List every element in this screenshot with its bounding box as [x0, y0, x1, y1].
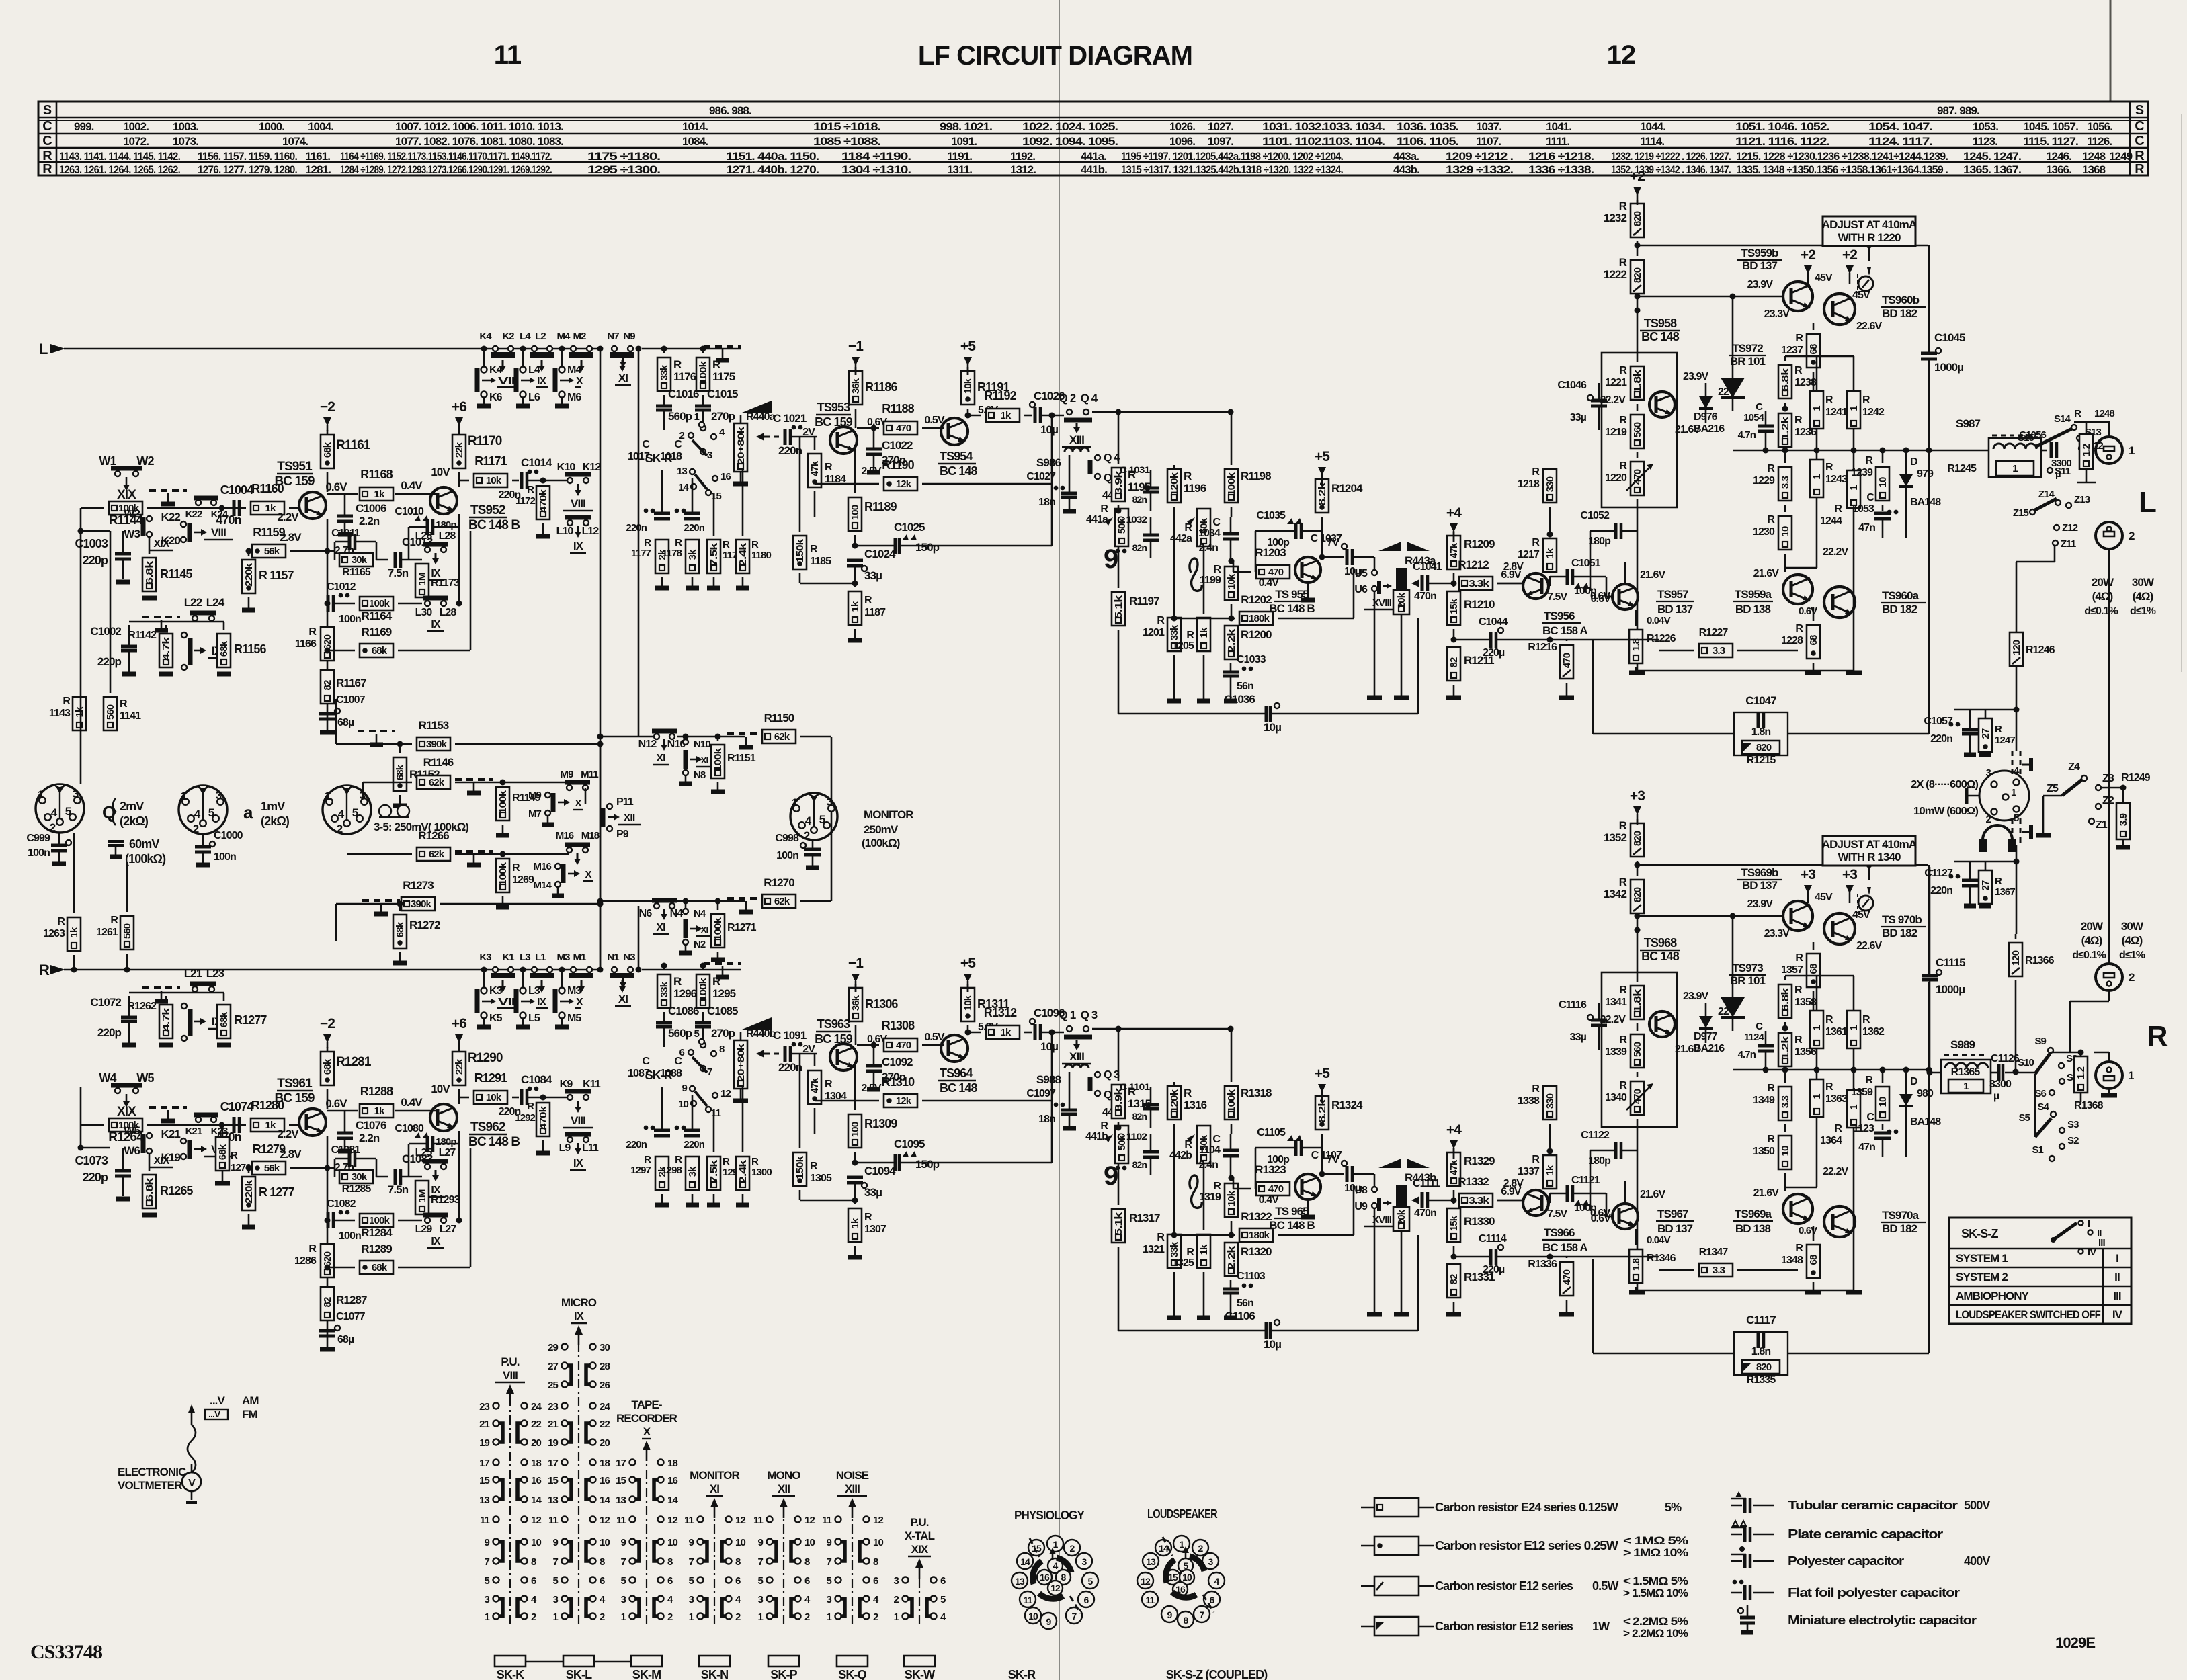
- svg-text:1114.: 1114.: [1640, 135, 1664, 148]
- svg-text:W6: W6: [124, 1144, 140, 1157]
- svg-text:1115. 1127.: 1115. 1127.: [2023, 135, 2078, 148]
- pot wedges R443a: [1378, 542, 1401, 551]
- svg-text:45V: 45V: [1815, 892, 1833, 903]
- svg-text:1201: 1201: [1143, 627, 1165, 638]
- svg-text:12: 12: [1141, 1576, 1151, 1587]
- svg-text:1335. 1348 ÷1350.1356 ÷1358.13: 1335. 1348 ÷1350.1356 ÷1358.1361÷1364.13…: [1736, 163, 1948, 176]
- svg-text:N8: N8: [694, 769, 706, 781]
- svg-text:1096.: 1096.: [1169, 135, 1195, 148]
- svg-text:6: 6: [804, 1575, 810, 1587]
- resistor R1356: [1778, 1033, 1792, 1066]
- svg-text:XI: XI: [701, 755, 708, 765]
- amp box TS958: [1602, 353, 1677, 507]
- svg-text:22.2V: 22.2V: [1823, 546, 1849, 558]
- svg-text:18: 18: [667, 1458, 677, 1469]
- svg-text:1087: 1087: [628, 1068, 650, 1079]
- svg-text:+3: +3: [1801, 867, 1815, 882]
- resistor R1195: [1112, 468, 1125, 501]
- svg-text:1164 ÷1169. 1152.1173.1153.114: 1164 ÷1169. 1152.1173.1153.1146.1170.117…: [340, 150, 552, 163]
- svg-text:1124. 1117.: 1124. 1117.: [1868, 135, 1932, 148]
- svg-text:1307: 1307: [864, 1224, 886, 1235]
- svg-text:1: 1: [2012, 463, 2018, 474]
- svg-text:TS953: TS953: [817, 401, 850, 414]
- svg-text:18: 18: [600, 1458, 610, 1469]
- svg-text:220n: 220n: [684, 1139, 704, 1150]
- svg-text:C1092: C1092: [882, 1056, 913, 1068]
- svg-text:330: 330: [1544, 476, 1556, 492]
- svg-text:BA216: BA216: [1694, 1043, 1725, 1054]
- svg-text:33k: 33k: [1169, 1241, 1180, 1257]
- svg-text:1124: 1124: [1744, 1032, 1764, 1043]
- svg-text:1357: 1357: [1781, 964, 1803, 976]
- svg-text:100n: 100n: [214, 851, 236, 863]
- svg-text:3: 3: [689, 1594, 694, 1605]
- svg-text:1191.: 1191.: [947, 150, 972, 163]
- capacitor C1072: [121, 1016, 137, 1019]
- svg-text:180p: 180p: [1588, 1155, 1611, 1167]
- svg-text:22.6V: 22.6V: [1856, 940, 1883, 952]
- svg-text:12: 12: [735, 1515, 745, 1526]
- svg-text:6.8k: 6.8k: [144, 560, 155, 585]
- svg-text:1091.: 1091.: [951, 135, 977, 148]
- svg-text:68k: 68k: [322, 442, 333, 458]
- svg-text:68µ: 68µ: [337, 717, 354, 728]
- svg-text:R1330: R1330: [1464, 1215, 1495, 1228]
- svg-text:12: 12: [667, 1515, 677, 1526]
- svg-text:10k: 10k: [962, 378, 974, 394]
- svg-text:1: 1: [621, 1611, 626, 1623]
- svg-text:3: 3: [73, 788, 79, 800]
- svg-text:68k: 68k: [372, 645, 388, 657]
- svg-text:68k: 68k: [322, 1058, 333, 1075]
- svg-text:R: R: [1619, 415, 1627, 426]
- svg-text:R: R: [751, 1156, 759, 1167]
- svg-text:R1170: R1170: [468, 434, 502, 448]
- svg-text:3: 3: [827, 796, 833, 808]
- capacitor C1006: [337, 515, 353, 518]
- resistor R1217: [1543, 538, 1557, 572]
- svg-text:R1190: R1190: [882, 458, 914, 472]
- resistor R1160: [251, 501, 284, 515]
- contacts L25 L27: [425, 1164, 430, 1169]
- DIN connector tape 3-5: [323, 786, 371, 834]
- legend capacitor tub: [1731, 1505, 1742, 1507]
- selector K3: [483, 972, 485, 989]
- svg-text:10: 10: [873, 1537, 883, 1548]
- svg-text:1056.: 1056.: [2087, 120, 2112, 133]
- svg-text:C1045: C1045: [1934, 331, 1965, 344]
- svg-text:Z5: Z5: [2047, 783, 2059, 794]
- svg-text:0.4V: 0.4V: [401, 1096, 423, 1109]
- svg-text:M1: M1: [573, 952, 586, 963]
- svg-text:C1103: C1103: [1237, 1271, 1266, 1282]
- svg-text:BD 137: BD 137: [1742, 879, 1778, 892]
- svg-text:2: 2: [667, 1611, 673, 1623]
- svg-text:1367: 1367: [1995, 886, 2015, 898]
- svg-text:0.6V: 0.6V: [325, 480, 347, 493]
- svg-text:L27: L27: [439, 1147, 456, 1159]
- capacitor C1044: [1489, 632, 1493, 648]
- svg-text:3: 3: [216, 789, 222, 802]
- svg-text:R: R: [1795, 623, 1803, 634]
- dashed ground: [727, 732, 765, 735]
- svg-text:1014.: 1014.: [682, 120, 708, 133]
- svg-text:1178: 1178: [662, 548, 682, 559]
- svg-text:1k: 1k: [850, 1218, 861, 1228]
- svg-text:45V: 45V: [1852, 290, 1870, 301]
- svg-text:220p: 220p: [97, 1026, 122, 1039]
- speaker switch S14 S13 S12 S11: [2071, 425, 2077, 430]
- svg-text:68: 68: [1808, 1255, 1819, 1265]
- svg-text:C1116: C1116: [1559, 999, 1587, 1011]
- svg-text:2mV: 2mV: [120, 800, 144, 813]
- svg-text:L5: L5: [528, 1013, 540, 1024]
- svg-text:R1192: R1192: [984, 389, 1016, 403]
- svg-text:IX: IX: [573, 540, 584, 552]
- svg-text:R: R: [1794, 984, 1803, 996]
- svg-text:1104: 1104: [1199, 1144, 1221, 1156]
- resistor R1276: [216, 1137, 229, 1171]
- svg-text:S3: S3: [2067, 1119, 2079, 1130]
- svg-text:C1115: C1115: [1936, 956, 1965, 969]
- svg-text:5: 5: [65, 805, 71, 818]
- resistor R1236: [1778, 413, 1792, 447]
- link tone to amp R: [1497, 1200, 1523, 1202]
- svg-text:1295 ÷1300.: 1295 ÷1300.: [587, 163, 660, 176]
- svg-text:Polyester capacitor: Polyester capacitor: [1788, 1554, 1904, 1568]
- resistor R1270: [762, 894, 796, 908]
- svg-text:R: R: [1532, 466, 1540, 478]
- svg-text:R: R: [42, 162, 52, 177]
- svg-text:1044.: 1044.: [1640, 120, 1665, 133]
- resistor R1291: [474, 1091, 507, 1104]
- svg-text:120k: 120k: [1169, 1089, 1180, 1113]
- treble clef: [1190, 1175, 1202, 1208]
- capacitor C1052: [1614, 523, 1618, 539]
- svg-text:C1012: C1012: [327, 581, 356, 593]
- svg-text:L9: L9: [559, 1142, 571, 1154]
- svg-text:N7: N7: [607, 331, 619, 342]
- svg-text:100: 100: [850, 1122, 861, 1137]
- svg-text:1085 ÷1088.: 1085 ÷1088.: [813, 135, 880, 148]
- transistor TS967: [1612, 1204, 1638, 1229]
- svg-text:2: 2: [193, 823, 199, 835]
- svg-text:R: R: [1619, 460, 1627, 472]
- svg-text:1217: 1217: [1518, 549, 1540, 560]
- svg-text:C: C: [674, 439, 682, 450]
- svg-text:220k: 220k: [243, 562, 255, 587]
- svg-text:S: S: [2135, 103, 2144, 118]
- svg-text:1097.: 1097.: [1208, 135, 1233, 148]
- svg-text:9: 9: [1104, 1161, 1118, 1191]
- resistor R1222: [1631, 260, 1644, 294]
- selector M16/M14: [555, 864, 561, 869]
- svg-text:1k: 1k: [1001, 1027, 1012, 1038]
- svg-text:1232. 1219 ÷1222 . 1226. 1227.: 1232. 1219 ÷1222 . 1226. 1227.: [1611, 150, 1731, 163]
- svg-text:R1146: R1146: [423, 756, 454, 769]
- svg-text:+6: +6: [452, 399, 466, 415]
- svg-text:R: R: [1619, 876, 1627, 888]
- svg-text:1368: 1368: [2082, 163, 2106, 176]
- svg-text:1004.: 1004.: [308, 120, 333, 133]
- svg-text:68µ: 68µ: [337, 1334, 354, 1345]
- svg-text:21.6V: 21.6V: [1753, 1187, 1780, 1199]
- svg-text:1205: 1205: [1172, 640, 1194, 652]
- capacitor C1094: [847, 1176, 863, 1179]
- svg-text:R: R: [675, 1154, 682, 1165]
- svg-text:R1145: R1145: [160, 567, 192, 581]
- svg-text:27: 27: [1980, 728, 1991, 739]
- svg-text:MICRO: MICRO: [561, 1296, 597, 1309]
- svg-text:C1085: C1085: [707, 1005, 738, 1017]
- svg-text:R1279: R1279: [253, 1142, 286, 1156]
- svg-text:2: 2: [2129, 971, 2135, 984]
- svg-text:R1285: R1285: [342, 1183, 372, 1195]
- svg-text:13: 13: [548, 1495, 558, 1506]
- svg-text:6.8k: 6.8k: [1780, 987, 1791, 1011]
- svg-text:W4: W4: [99, 1071, 116, 1085]
- svg-text:1: 1: [2011, 787, 2016, 798]
- resistor R1357: [1807, 954, 1820, 987]
- coil S987 with R1245: [1989, 438, 2041, 477]
- resistor R1368: [2074, 1056, 2088, 1093]
- pot R443b body: [1396, 1185, 1407, 1208]
- svg-text:R1151: R1151: [727, 753, 756, 764]
- svg-text:+4: +4: [1446, 505, 1462, 521]
- svg-text:3: 3: [553, 1594, 559, 1605]
- svg-text:R: R: [1186, 1247, 1194, 1258]
- svg-text:BC 148 B: BC 148 B: [468, 518, 520, 532]
- svg-text:2.4n: 2.4n: [1199, 1159, 1219, 1171]
- pot R1340: [1631, 1081, 1644, 1115]
- resistor R1226: [1629, 630, 1643, 663]
- svg-text:M3: M3: [567, 985, 581, 997]
- svg-text:470: 470: [896, 1040, 911, 1051]
- capacitor C1033: [1223, 671, 1239, 674]
- svg-text:...V: ...V: [208, 1409, 221, 1419]
- svg-text:13: 13: [1146, 1556, 1156, 1567]
- svg-text:R: R: [231, 1150, 238, 1161]
- svg-text:R: R: [1767, 514, 1775, 526]
- svg-text:R1335: R1335: [1747, 1374, 1776, 1386]
- svg-text:22V: 22V: [1718, 386, 1736, 398]
- svg-text:2.5V: 2.5V: [861, 466, 882, 477]
- svg-text:68k: 68k: [218, 640, 230, 657]
- svg-text:33µ: 33µ: [1570, 1032, 1587, 1043]
- resistor R1197: [1112, 592, 1125, 626]
- resistor R1142: [159, 634, 173, 667]
- svg-text:270p: 270p: [711, 410, 735, 423]
- svg-text:R1204: R1204: [1331, 482, 1363, 495]
- capacitor C1051: [1566, 569, 1569, 585]
- svg-text:1053: 1053: [1852, 503, 1874, 515]
- speaker socket L1: [2096, 437, 2122, 464]
- svg-text:100p: 100p: [1267, 1154, 1290, 1165]
- svg-text:C1097: C1097: [1026, 1088, 1056, 1099]
- svg-text:W5: W5: [124, 1124, 140, 1137]
- transistor TS 955: [1295, 557, 1321, 583]
- cap 60mV: [108, 841, 124, 845]
- svg-text:220p: 220p: [83, 1171, 108, 1184]
- svg-text:SK-N: SK-N: [701, 1668, 728, 1680]
- svg-text:R1150: R1150: [764, 712, 794, 724]
- resistor R1349: [1778, 1087, 1792, 1120]
- resistor R1237: [1807, 334, 1820, 368]
- capacitor C1076: [337, 1132, 353, 1135]
- svg-text:Flat foil polyester capacit: Flat foil polyester capacitor: [1788, 1586, 1960, 1599]
- svg-text:LOUDSPEAKER: LOUDSPEAKER: [1147, 1507, 1218, 1521]
- svg-text:L28: L28: [439, 530, 456, 542]
- svg-text:R: R: [1157, 615, 1165, 626]
- resistor R1348: [1807, 1245, 1820, 1278]
- capacitor C1010: [426, 519, 429, 535]
- svg-text:C1046: C1046: [1557, 380, 1587, 391]
- svg-text:4: 4: [51, 806, 58, 819]
- diode D979: [1899, 474, 1913, 487]
- svg-text:1: 1: [181, 790, 187, 802]
- contacts Q 4 Q 6: [1095, 455, 1100, 460]
- svg-text:68: 68: [1808, 635, 1819, 645]
- svg-text:K1: K1: [502, 952, 514, 963]
- svg-text:1123: 1123: [1853, 1123, 1874, 1134]
- svg-text:W3: W3: [124, 528, 140, 540]
- svg-text:X: X: [576, 376, 583, 387]
- svg-text:150p: 150p: [915, 1158, 940, 1171]
- svg-text:5: 5: [827, 1575, 832, 1587]
- svg-text:56n: 56n: [1237, 681, 1253, 692]
- svg-text:10: 10: [804, 1537, 815, 1548]
- svg-text:+3: +3: [1842, 867, 1857, 882]
- svg-text:C1081: C1081: [331, 1144, 361, 1156]
- svg-text:1022. 1024. 1025.: 1022. 1024. 1025.: [1022, 120, 1118, 133]
- svg-text:1092. 1094. 1095.: 1092. 1094. 1095.: [1022, 135, 1118, 148]
- svg-text:30W: 30W: [2121, 920, 2144, 933]
- svg-text:M9: M9: [560, 769, 573, 780]
- svg-text:C 1102: C 1102: [1117, 1131, 1147, 1142]
- svg-text:1084.: 1084.: [682, 135, 708, 148]
- svg-text:120k: 120k: [1169, 472, 1180, 496]
- svg-text:ADJUST AT 410mA: ADJUST AT 410mA: [1822, 218, 1917, 231]
- wire input row: [81, 507, 104, 509]
- svg-text:1033. 1034.: 1033. 1034.: [1323, 120, 1385, 133]
- svg-text:23.9V: 23.9V: [1683, 371, 1709, 382]
- svg-text:1W: 1W: [1592, 1620, 1610, 1633]
- svg-text:R1189: R1189: [864, 500, 897, 513]
- svg-text:D977: D977: [1694, 1031, 1718, 1042]
- svg-text:7: 7: [1200, 1609, 1205, 1620]
- svg-text:47k: 47k: [1448, 542, 1460, 558]
- wire rail to R1270: [600, 900, 654, 902]
- svg-text:7: 7: [758, 1556, 764, 1568]
- resistor R1309: [848, 1114, 862, 1148]
- svg-text:1106. 1105.: 1106. 1105.: [1397, 135, 1458, 148]
- svg-text:2: 2: [804, 829, 810, 842]
- svg-text:SYSTEM 1: SYSTEM 1: [1956, 1252, 2008, 1265]
- svg-text:120: 120: [2010, 950, 2022, 966]
- svg-text:17: 17: [616, 1458, 626, 1469]
- svg-text:IX: IX: [537, 997, 547, 1008]
- capacitor C1034: [1223, 532, 1239, 536]
- svg-text:13: 13: [479, 1495, 489, 1506]
- svg-text:TAPE-: TAPE-: [631, 1398, 661, 1411]
- svg-text:150k: 150k: [794, 538, 806, 562]
- capacitor C1007: [319, 712, 335, 716]
- svg-text:K11: K11: [583, 1079, 601, 1090]
- svg-text:W5: W5: [136, 1071, 154, 1085]
- svg-text:L2: L2: [535, 331, 546, 342]
- svg-text:TS968: TS968: [1644, 936, 1677, 950]
- svg-text:BC 158 A: BC 158 A: [1542, 1241, 1587, 1254]
- svg-text:1362: 1362: [1862, 1026, 1885, 1038]
- svg-text:1.2k: 1.2k: [1780, 1036, 1791, 1060]
- svg-text:C1074: C1074: [220, 1100, 253, 1114]
- svg-text:IX: IX: [573, 1157, 584, 1169]
- resistor R1336: [1560, 1262, 1573, 1296]
- svg-text:R1318: R1318: [1241, 1087, 1272, 1099]
- svg-text:XI: XI: [618, 372, 628, 384]
- svg-text:7.5k: 7.5k: [708, 542, 720, 566]
- svg-text:5: 5: [1088, 1576, 1093, 1587]
- pot R441b: [1115, 1126, 1128, 1163]
- svg-text:TS969a: TS969a: [1735, 1208, 1772, 1220]
- svg-text:S15: S15: [2018, 432, 2034, 444]
- resistor R1164: [360, 597, 393, 610]
- svg-text:1k: 1k: [374, 1105, 385, 1117]
- transistor TS957: [1612, 584, 1638, 610]
- svg-text:(100kΩ): (100kΩ): [125, 852, 166, 866]
- svg-text:R1329: R1329: [1464, 1154, 1495, 1167]
- svg-text:U5: U5: [1354, 568, 1368, 579]
- resistor R1316: [1167, 1086, 1181, 1120]
- svg-text:P.U.: P.U.: [501, 1355, 519, 1368]
- contacts L22 L20: [181, 632, 187, 638]
- svg-text:1037.: 1037.: [1476, 120, 1501, 133]
- svg-text:SK-S-Z (COUPLED): SK-S-Z (COUPLED): [1166, 1668, 1268, 1680]
- svg-text:R: R: [864, 1212, 872, 1223]
- pot wedges R443b: [1378, 1159, 1401, 1168]
- resistor R1203: [1256, 565, 1290, 579]
- svg-text:987. 989.: 987. 989.: [1937, 104, 1979, 117]
- resistor R1198: [1225, 469, 1238, 503]
- svg-text:8: 8: [804, 1556, 810, 1568]
- svg-text:820: 820: [1632, 831, 1643, 846]
- svg-text:0.6V: 0.6V: [1799, 605, 1817, 617]
- capacitor C1115x: [1928, 865, 1930, 976]
- svg-text:TS959b: TS959b: [1741, 247, 1778, 259]
- svg-text:d≤1%: d≤1%: [2119, 950, 2145, 961]
- svg-text:C: C: [1756, 1021, 1763, 1032]
- capacitor C1103: [1223, 1288, 1239, 1291]
- svg-text:R: R: [1834, 503, 1842, 515]
- resistor R1322: [1239, 1228, 1273, 1242]
- resistor R1202: [1239, 612, 1273, 625]
- svg-text:R: R: [110, 915, 118, 926]
- svg-text:1176: 1176: [673, 370, 696, 383]
- svg-text:820: 820: [1632, 211, 1643, 226]
- svg-text:220n: 220n: [778, 444, 802, 457]
- svg-text:1321: 1321: [1143, 1244, 1165, 1255]
- svg-text:R: R: [751, 539, 759, 550]
- svg-text:1304 ÷1310.: 1304 ÷1310.: [841, 163, 911, 176]
- svg-text:BA148: BA148: [1910, 497, 1941, 508]
- wires from preamp to connectors: [80, 695, 82, 784]
- svg-text:R: R: [1532, 1154, 1540, 1165]
- svg-text:1151. 440a. 1150.: 1151. 440a. 1150.: [726, 150, 819, 163]
- svg-text:15: 15: [711, 491, 721, 502]
- resistor R1362: [1847, 1011, 1860, 1048]
- svg-text:1246.: 1246.: [2046, 150, 2071, 163]
- resistor R1149: [496, 787, 509, 821]
